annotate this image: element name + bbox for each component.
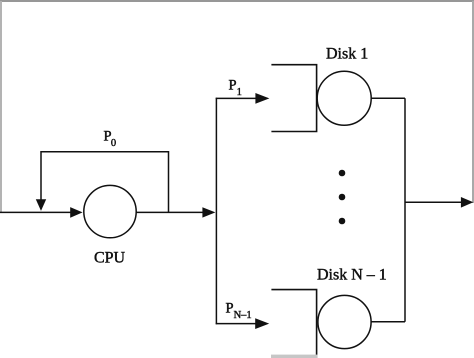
wire: Disk 1 output xyxy=(371,97,405,99)
queue Disk 1 box xyxy=(271,65,316,132)
wire: collector line on right xyxy=(404,98,406,322)
svg-text:Disk 1: Disk 1 xyxy=(326,45,368,62)
node: ellipsis dots for additional disks xyxy=(339,170,346,225)
wire: P1 arrow into Disk 1 queue xyxy=(216,93,270,104)
queue server circle CPU xyxy=(84,185,136,237)
wire: CPU output to branch point xyxy=(136,207,215,217)
queue server circle Disk 1 xyxy=(317,71,371,125)
svg-text:CPU: CPU xyxy=(94,250,126,267)
wire: P N-1 arrow into Disk N-1 queue xyxy=(216,318,270,329)
queue Disk N-1 box xyxy=(271,290,316,358)
queue Disk N-1 bottom edge (faded) xyxy=(271,355,318,358)
wire: system input arrow into CPU xyxy=(0,207,83,218)
queue server circle Disk N-1 xyxy=(318,295,371,348)
wire: feedback loop P0 xyxy=(36,152,169,213)
svg-text:Disk N – 1: Disk N – 1 xyxy=(317,267,387,284)
wire: system exit arrow xyxy=(405,197,473,208)
wire: branch distribution line xyxy=(215,98,217,325)
wire: Disk N-1 output xyxy=(371,321,405,323)
